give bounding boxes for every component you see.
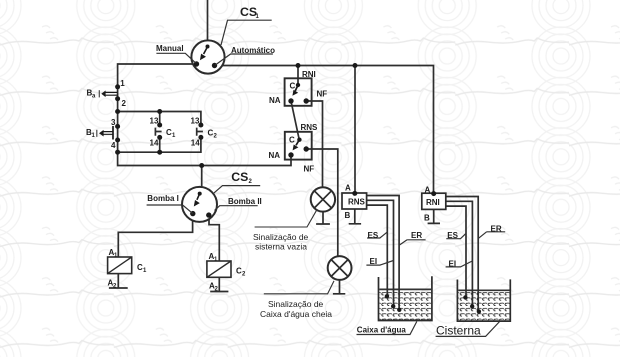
svg-text:ER: ER — [491, 224, 502, 233]
svg-text:A: A — [425, 186, 431, 195]
svg-text:Bomba II: Bomba II — [228, 197, 262, 206]
svg-text:A: A — [345, 184, 351, 193]
svg-text:13: 13 — [150, 117, 159, 126]
svg-text:14: 14 — [150, 139, 159, 148]
svg-text:3: 3 — [111, 118, 116, 127]
svg-text:ES: ES — [447, 231, 458, 240]
svg-text:NF: NF — [317, 90, 328, 99]
svg-text:13: 13 — [191, 117, 200, 126]
svg-text:ER: ER — [411, 231, 422, 240]
svg-text:1: 1 — [120, 79, 125, 88]
svg-text:ES: ES — [368, 231, 379, 240]
svg-text:C: C — [289, 136, 295, 145]
svg-text:RNI: RNI — [302, 70, 316, 79]
svg-text:NF: NF — [304, 165, 315, 174]
svg-text:Caixa d'água cheia: Caixa d'água cheia — [260, 309, 332, 319]
svg-text:Manual: Manual — [156, 44, 184, 53]
svg-text:Bomba I: Bomba I — [147, 194, 179, 203]
svg-text:4: 4 — [111, 141, 116, 150]
svg-text:B: B — [345, 211, 351, 220]
svg-text:RNI: RNI — [426, 198, 440, 207]
svg-text:Cisterna: Cisterna — [436, 324, 481, 338]
svg-text:Automático: Automático — [231, 46, 275, 55]
svg-text:NA: NA — [269, 151, 281, 160]
svg-text:Caixa d'água: Caixa d'água — [357, 326, 407, 335]
svg-text:B: B — [424, 214, 430, 223]
svg-text:Sinalização de: Sinalização de — [253, 232, 309, 242]
svg-text:EI: EI — [370, 257, 378, 266]
svg-text:NA: NA — [269, 96, 281, 105]
svg-text:14: 14 — [191, 139, 200, 148]
svg-text:RNS: RNS — [348, 197, 366, 206]
svg-text:sisterna vazia: sisterna vazia — [255, 242, 307, 252]
svg-text:CS: CS — [231, 170, 248, 184]
svg-text:RNS: RNS — [301, 123, 319, 132]
svg-text:EI: EI — [449, 260, 457, 269]
svg-text:C: C — [290, 82, 296, 91]
svg-text:2: 2 — [122, 99, 127, 108]
svg-text:Sinalização de: Sinalização de — [268, 299, 324, 309]
